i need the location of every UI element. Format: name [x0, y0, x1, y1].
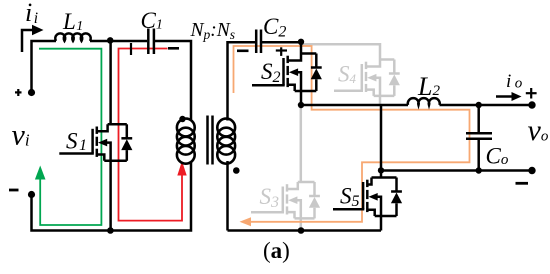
svg-text:S3: S3: [260, 184, 280, 211]
svg-text:L1: L1: [62, 9, 83, 34]
svg-text:Co: Co: [486, 144, 509, 169]
svg-text:Np:Ns: Np:Ns: [190, 20, 236, 42]
svg-text:C1: C1: [141, 8, 163, 33]
svg-text:S1: S1: [66, 129, 87, 155]
svg-text:ii: ii: [25, 0, 38, 27]
svg-text:vi: vi: [12, 119, 30, 152]
svg-text:S2: S2: [261, 59, 281, 86]
svg-text:S4: S4: [338, 61, 357, 86]
svg-text:S5: S5: [340, 184, 360, 211]
svg-text:L2: L2: [417, 72, 440, 101]
svg-text:vo: vo: [528, 114, 549, 147]
svg-text:io: io: [506, 71, 523, 92]
svg-text:C2: C2: [263, 14, 286, 41]
svg-text:(a): (a): [263, 238, 290, 263]
